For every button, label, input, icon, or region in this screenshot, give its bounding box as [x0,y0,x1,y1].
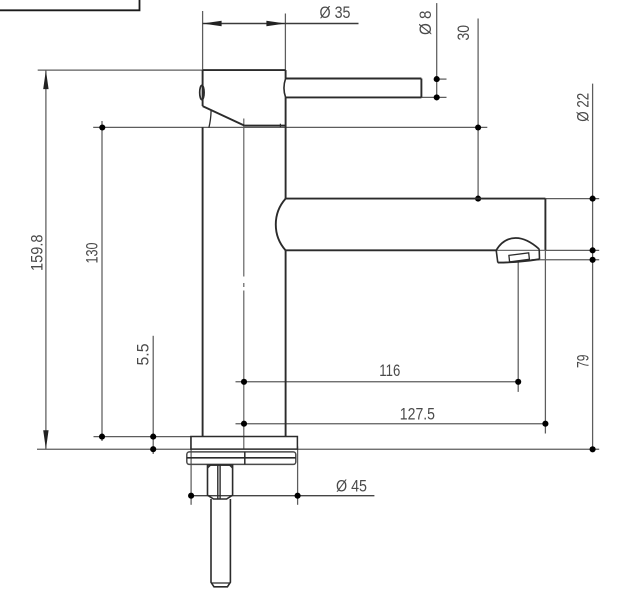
svg-text:5.5: 5.5 [134,344,153,366]
svg-text:Ø 35: Ø 35 [320,3,351,22]
svg-text:Ø 45: Ø 45 [336,476,367,495]
svg-text:Ø 8: Ø 8 [416,11,435,36]
svg-text:30: 30 [454,25,473,41]
svg-text:79: 79 [573,355,592,369]
svg-text:159.8: 159.8 [28,235,47,272]
svg-text:116: 116 [379,361,400,380]
svg-text:127.5: 127.5 [400,405,435,424]
svg-text:Ø 22: Ø 22 [574,93,593,122]
svg-text:130: 130 [83,243,102,264]
